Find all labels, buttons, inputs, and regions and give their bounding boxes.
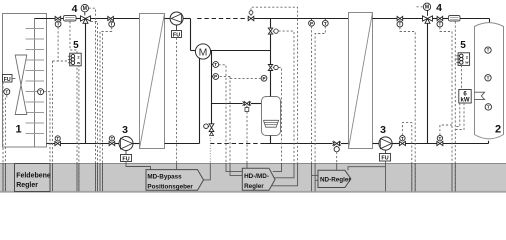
svg-text:FU: FU	[4, 77, 11, 83]
shutoff valve with thermometer bottom right outer	[437, 136, 443, 146]
temperature sensor T before HX2	[322, 19, 328, 27]
flow meter left	[64, 16, 77, 22]
svg-text:M: M	[83, 6, 87, 12]
wire mixing valve to valve right	[433, 18, 438, 20]
bypass pipe down from right mixing valve	[427, 23, 429, 143]
service valve lower	[268, 65, 278, 71]
heating coil column in unit 1	[34, 19, 36, 148]
wire valve to pump right	[392, 143, 399, 145]
signal fan T down	[5, 95, 6, 191]
label 4 left	[72, 3, 78, 15]
temperature sensor T at compressor	[212, 62, 219, 68]
label 4 right	[436, 2, 442, 14]
signal flow meter right to terminal block	[455, 21, 458, 59]
svg-text:T: T	[401, 136, 404, 141]
control valve before receiver	[243, 101, 251, 111]
svg-text:T: T	[214, 62, 217, 67]
signal compressor P to band	[219, 76, 231, 163]
svg-text:T: T	[56, 136, 59, 141]
hand valve bottom left	[55, 136, 61, 146]
wire tank bottom to pipe	[443, 141, 489, 144]
liquid line to receiver	[212, 103, 243, 105]
svg-text:T: T	[487, 105, 490, 110]
signal control valve positioner	[246, 112, 248, 163]
svg-text:5: 5	[460, 40, 466, 51]
wire vessel bottom to liquid pipe	[270, 136, 272, 144]
HD MD controller box	[242, 168, 275, 190]
shutoff valve with thermometer before tank	[437, 16, 443, 27]
label 1	[15, 124, 21, 136]
signal horizontal to terminal block left	[53, 60, 70, 62]
wire receiver to control valve	[264, 143, 332, 145]
svg-text:T: T	[487, 75, 490, 80]
three-way mixing valve right	[423, 16, 433, 23]
wire pump to HX2 bottom	[373, 143, 379, 145]
automation level gray band	[0, 163, 506, 193]
field level controller box	[15, 164, 51, 192]
circulation pump right 3	[379, 137, 392, 150]
three-way mixing valve left	[81, 16, 91, 23]
signal down at 52.5	[52, 61, 54, 191]
signal second line at 102.5	[102, 34, 104, 192]
wire valve to right mixing valve	[403, 18, 423, 20]
svg-text:Regler: Regler	[16, 182, 38, 189]
signal top pump FU down	[176, 38, 178, 163]
svg-text:kW: kW	[461, 98, 470, 104]
label 2	[495, 124, 501, 136]
temperature sensor T in unit 1 right	[38, 89, 44, 95]
label 3 left	[122, 124, 128, 136]
wire valve through bypass junction	[61, 143, 110, 145]
wire HX1 to pump	[165, 18, 171, 20]
signal bottom control valve to band	[336, 152, 338, 163]
label 3 right	[380, 124, 386, 136]
frequency converter FU of right pump	[380, 150, 391, 162]
svg-text:T: T	[57, 22, 60, 27]
band line positioner to HD controller top	[246, 163, 248, 168]
svg-text:3: 3	[122, 124, 128, 136]
MD bypass position controller box	[146, 170, 204, 191]
signal terminal block left down	[78, 65, 80, 191]
svg-text:T: T	[487, 48, 490, 53]
control valve bottom with positioner	[333, 141, 341, 151]
actuator M of right mixing valve	[423, 3, 430, 16]
wire unit 1 to valve bottom	[47, 143, 55, 145]
svg-text:Regler: Regler	[244, 183, 264, 190]
signal flow meter left down	[70, 21, 77, 191]
wire bypass valve to HX2	[254, 18, 348, 20]
shutoff valve with thermometer before HX1	[108, 16, 115, 27]
signal fan FU down	[2, 82, 4, 191]
wire compressor discharge to receiver line	[210, 50, 270, 52]
circulation pump top	[170, 12, 183, 25]
terminal block left	[68, 53, 81, 66]
band line service valve upper to HD right	[275, 163, 294, 178]
band line right pump FU to ND controller	[348, 161, 386, 191]
band line compressor T to HD controller	[226, 163, 242, 172]
shutoff valve with thermometer bottom right inner	[399, 136, 405, 146]
wire mixing valve to valve	[91, 18, 108, 20]
svg-text:ND-Regler: ND-Regler	[320, 176, 351, 183]
label 5 right	[460, 40, 466, 51]
signal pressure sensor P HX2 to band	[311, 26, 313, 163]
shutoff valve with thermometer top-left	[55, 16, 61, 27]
wire valve to flow meter	[61, 18, 64, 20]
band line service valve lower to HD right	[273, 163, 282, 172]
signal actuator M left to band	[89, 8, 96, 191]
svg-text:T: T	[438, 136, 441, 141]
wire pump to HX1 bottom	[133, 143, 140, 145]
storage tank 2	[475, 23, 504, 139]
wire supply pipe from coil to valve	[35, 18, 56, 20]
signal thermometer 400 to band	[400, 27, 415, 191]
wire valve to junction	[405, 143, 437, 145]
wire flow meter to mixing valve	[76, 18, 81, 20]
terminal block right	[456, 53, 469, 66]
svg-text:4: 4	[72, 3, 78, 15]
shutoff valve with thermometer after HX2	[397, 16, 403, 27]
svg-text:4: 4	[436, 2, 442, 14]
plate heat exchanger HX1	[140, 14, 165, 149]
wire hot gas line down	[211, 51, 213, 124]
svg-text:FU: FU	[381, 156, 388, 162]
temperature sensor T tank lower	[485, 104, 491, 110]
svg-text:T: T	[110, 22, 113, 27]
signal bottom thermometer 440 up	[440, 125, 452, 135]
svg-text:T: T	[111, 136, 114, 141]
band line pump FU left to MD controller	[126, 162, 151, 170]
wire valve to pump left	[115, 143, 119, 145]
wire flow meter to tank	[460, 19, 490, 23]
signal actuator M right	[415, 6, 423, 8]
wire pump to riser	[183, 18, 190, 20]
signal pair to band right	[454, 59, 456, 191]
svg-text:MD-Bypass: MD-Bypass	[147, 174, 182, 181]
band line MD controller to expansion valve	[204, 163, 211, 180]
svg-text:5: 5	[73, 40, 79, 51]
band line top pump FU to MD controller	[176, 163, 178, 170]
circulation pump left 3	[119, 137, 133, 151]
pressure sensor P at compressor	[212, 74, 219, 80]
signal thermometer 110 to band	[100, 27, 112, 191]
band line bypass valve to HD right	[272, 163, 298, 186]
plate heat exchanger HX2	[349, 13, 373, 149]
wire valve to flow meter right	[443, 18, 449, 20]
receiver vessel	[262, 97, 281, 136]
temperature sensor T tank top	[485, 47, 491, 53]
hand valve before pump left	[109, 136, 115, 146]
wire riser to compressor	[191, 19, 196, 51]
svg-text:2: 2	[495, 124, 501, 136]
signal compressor T to band	[219, 65, 227, 163]
electric heater 6 kW	[459, 90, 485, 104]
label 5 left	[73, 40, 79, 51]
wire valve to heat exchanger HX1	[113, 18, 139, 20]
svg-text:1: 1	[15, 124, 21, 136]
temperature sensor T tank middle	[485, 75, 491, 81]
signal service valve lower to band	[278, 68, 281, 164]
temperature sensor T in unit 1 left	[4, 89, 10, 95]
expansion valve with positioner	[204, 124, 214, 136]
svg-text:T: T	[5, 89, 8, 94]
band line T sensor to ND left	[315, 179, 318, 181]
pressure sensor P at receiver	[261, 75, 267, 81]
fan impeller in unit 1	[15, 55, 27, 115]
dashed liquid pipe middle	[210, 143, 264, 145]
signal thermometer 440 to band	[440, 27, 452, 191]
compressor M	[195, 44, 210, 59]
signal unit T to band	[44, 92, 50, 191]
service valve upper	[268, 28, 278, 34]
signal mixing valve feedback	[91, 22, 98, 192]
bypass control valve	[248, 11, 254, 21]
wire valve to vessel top	[270, 71, 272, 97]
hot gas bypass dashed pipe	[197, 18, 248, 20]
signal expansion valve dotted	[209, 135, 211, 163]
band pass-through signal lines	[3, 163, 455, 191]
bypass pipe down from mixing valve	[85, 23, 87, 143]
svg-text:P: P	[310, 21, 313, 26]
ND controller box	[318, 170, 351, 187]
frequency converter FU of fan	[3, 75, 16, 83]
wire valve to HX2 left	[341, 143, 348, 145]
svg-text:FU: FU	[122, 156, 129, 162]
pressure sensor P before HX2	[309, 19, 315, 27]
signal thermometer 58 down	[57, 27, 59, 61]
air handling unit 1 housing	[3, 14, 47, 148]
signal bypass valve to band	[251, 7, 298, 163]
wire HX2 to valve right	[373, 18, 398, 20]
frequency converter FU of top pump	[172, 25, 182, 38]
frequency converter FU of left pump	[121, 151, 132, 163]
svg-text:P: P	[214, 74, 217, 79]
signal bottom thermometer 402 to band	[402, 123, 411, 191]
actuator M of left mixing valve	[81, 5, 88, 16]
svg-text:HD-/MD-: HD-/MD-	[244, 173, 269, 180]
flow meter right	[449, 16, 461, 22]
band line bottom valve to ND top	[336, 163, 338, 170]
wire top pipe down to receiver	[270, 19, 272, 29]
signal temperature sensor T HX2 to band	[315, 26, 325, 163]
svg-text:FU: FU	[173, 32, 180, 38]
svg-text:M: M	[425, 5, 429, 11]
svg-text:P: P	[262, 76, 265, 81]
wire compressor suction down to HX1	[165, 58, 200, 143]
liquid level in receiver	[263, 120, 278, 127]
svg-text:T: T	[39, 89, 42, 94]
signal service valve upper to band	[278, 31, 294, 163]
band line compressor P to HD controller	[230, 163, 242, 175]
wire between valves	[270, 34, 272, 64]
signal terminal block right down	[461, 65, 463, 89]
svg-text:3: 3	[380, 124, 386, 136]
signal heater lines down	[455, 103, 464, 129]
wire valve to receiver	[251, 103, 262, 105]
band line P sensor to ND left	[312, 174, 319, 176]
svg-text:M: M	[199, 46, 208, 58]
svg-text:Positionsgeber: Positionsgeber	[147, 184, 193, 191]
signal receiver P to band	[230, 77, 261, 79]
svg-text:T: T	[324, 21, 327, 26]
svg-text:T: T	[398, 22, 401, 27]
svg-text:T: T	[438, 22, 441, 27]
coil fin ticks	[26, 29, 45, 134]
svg-text:Feldebene: Feldebene	[16, 172, 51, 179]
